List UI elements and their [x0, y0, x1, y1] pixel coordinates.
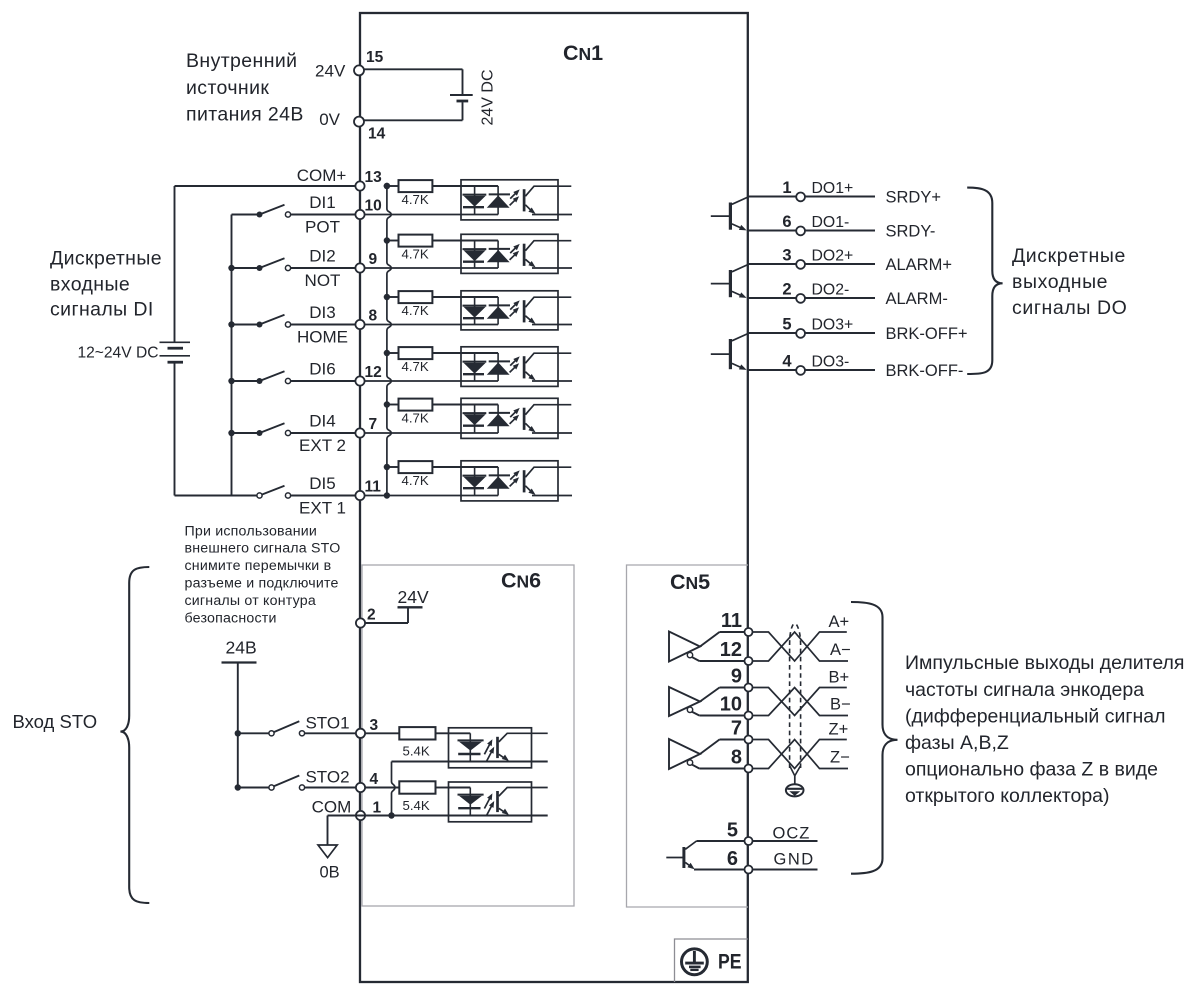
wire DO row DO1-: [748, 230, 875, 232]
svg-text:9: 9: [369, 251, 378, 268]
wire DO row DO3+: [748, 332, 875, 334]
junction COM+ bus row DI1: [384, 183, 390, 189]
svg-text:PE: PE: [718, 949, 742, 973]
svg-text:Z+: Z+: [829, 720, 849, 738]
label 4.7K row DI3: [402, 303, 429, 318]
optocoupler U8 (STO2): [449, 782, 548, 822]
label STO input: [13, 711, 98, 732]
svg-text:CN5: CN5: [670, 570, 710, 594]
pin 5 (DO3+): [782, 315, 805, 337]
label STO2: [305, 768, 349, 787]
optocoupler U7 (STO1): [449, 728, 548, 768]
label DO1+: [812, 180, 854, 197]
label A+: [829, 613, 850, 631]
svg-text:выходные: выходные: [1012, 271, 1108, 293]
junction bus DI5 line: [384, 492, 390, 498]
svg-text:BRK-OFF+: BRK-OFF+: [886, 325, 968, 343]
label 0B: [320, 864, 340, 882]
twisted pair B: [749, 688, 849, 716]
wire COM+ rail: [175, 185, 361, 187]
resistor 5.4K (STO2): [365, 781, 449, 793]
svg-text:Импульсные выходы делителя: Импульсные выходы делителя: [905, 652, 1184, 674]
svg-text:ALARM+: ALARM+: [886, 256, 952, 274]
label 24V DC (rotated): [480, 69, 497, 125]
svg-text:4.7K: 4.7K: [402, 359, 429, 374]
junction switch bus y268: [228, 265, 234, 271]
label Z+: [829, 720, 849, 738]
svg-text:COM+: COM+: [297, 166, 347, 185]
svg-text:A−: A−: [830, 641, 851, 659]
pin 7: [731, 718, 753, 744]
brace DO group: [967, 188, 1002, 374]
svg-text:DO1+: DO1+: [812, 180, 854, 197]
pin 2 (DO2-): [782, 280, 805, 302]
line driver B: [669, 687, 749, 716]
svg-text:сигналы от контура: сигналы от контура: [185, 593, 316, 609]
label CN6: [501, 569, 541, 593]
svg-text:4.7K: 4.7K: [402, 246, 429, 261]
svg-text:частоты сигнала энкодера: частоты сигнала энкодера: [905, 679, 1144, 701]
svg-text:NOT: NOT: [305, 271, 341, 290]
label DI4: [309, 412, 335, 431]
pin 11 (DI5): [355, 478, 381, 500]
label B+: [829, 668, 850, 686]
svg-text:4.7K: 4.7K: [402, 192, 429, 207]
svg-text:12: 12: [365, 364, 382, 381]
wire opto1 return rail: [392, 761, 548, 763]
label DO2+: [812, 248, 854, 265]
label B−: [830, 696, 851, 714]
junction switch bus y324.5: [228, 321, 234, 327]
svg-text:DI5: DI5: [309, 474, 335, 493]
svg-text:9: 9: [731, 666, 742, 688]
optocoupler U2 row DI2: [360, 234, 572, 273]
svg-text:BRK-OFF-: BRK-OFF-: [886, 362, 964, 380]
svg-text:DI3: DI3: [309, 303, 335, 322]
cable shield (dashed): [790, 623, 801, 776]
label DI3: [309, 303, 335, 322]
svg-text:6: 6: [727, 848, 738, 870]
svg-text:EXT 2: EXT 2: [299, 436, 346, 455]
label DO3+: [812, 317, 854, 334]
battery B2 12-24V DC: [160, 342, 191, 362]
label NOT: [305, 271, 341, 290]
pin 12: [720, 639, 753, 665]
svg-text:DO3+: DO3+: [812, 317, 854, 334]
svg-text:STO2: STO2: [305, 768, 349, 787]
svg-text:Дискретные: Дискретные: [50, 248, 162, 270]
pin 3: [356, 717, 379, 738]
svg-text:DO2+: DO2+: [812, 248, 854, 265]
svg-text:разъеме и подключите: разъеме и подключите: [185, 576, 339, 592]
svg-text:1: 1: [782, 179, 791, 197]
pin 1: [356, 799, 382, 820]
label DO1-: [812, 214, 850, 231]
brace STO input: [120, 567, 149, 903]
svg-text:A+: A+: [829, 613, 850, 631]
svg-text:4: 4: [782, 352, 792, 370]
wire GND row: [694, 869, 818, 871]
resistor 4.7K row DI5: [387, 461, 461, 473]
label 5.4K (STO1): [403, 744, 430, 759]
pin 3 (DO2+): [782, 246, 805, 268]
shield earth symbol: [786, 776, 804, 797]
svg-text:2: 2: [367, 607, 376, 624]
twisted pair Z: [749, 740, 849, 769]
pin 6: [727, 848, 753, 874]
svg-text:24V: 24V: [315, 61, 346, 80]
pin 10 (DI1): [355, 197, 381, 219]
svg-text:15: 15: [366, 49, 384, 66]
svg-text:DI4: DI4: [309, 412, 335, 431]
svg-text:DO3-: DO3-: [812, 354, 850, 371]
svg-text:DI1: DI1: [309, 193, 335, 212]
wire switch bus: [231, 215, 233, 496]
resistor 4.7K row DI4: [387, 399, 461, 411]
switch DI at y433: [232, 423, 361, 436]
svg-text:HOME: HOME: [297, 327, 348, 346]
wire DO row DO1+: [748, 196, 875, 198]
svg-text:опционально фаза Z в виде: опционально фаза Z в виде: [905, 759, 1158, 781]
transistor Q4 (OCZ): [666, 841, 696, 869]
pin 2: [356, 607, 376, 628]
label COM+: [297, 166, 347, 185]
wire external battery bottom: [175, 364, 258, 496]
battery B1 24V DC: [450, 95, 473, 101]
text DI inputs description: [50, 248, 162, 321]
label CN1: [563, 41, 603, 65]
label ALARM+: [886, 256, 952, 274]
svg-text:(дифференциальный сигнал: (дифференциальный сигнал: [905, 705, 1165, 727]
text STO usage note: [185, 523, 341, 626]
svg-text:Внутренний: Внутренний: [186, 50, 297, 72]
label CN5: [670, 570, 710, 594]
wire COM+ bus with hops: [387, 186, 391, 496]
svg-text:питания 24В: питания 24В: [186, 103, 304, 125]
label EXT 1: [299, 498, 346, 517]
junction COM+ bus row DI4: [384, 401, 390, 407]
svg-text:внешнего сигнала STO: внешнего сигнала STO: [185, 541, 341, 557]
wire opto1 return with hop: [392, 762, 396, 816]
label DI1: [309, 193, 335, 212]
pin 7 (DI4): [355, 416, 377, 438]
resistor 4.7K row DI3: [387, 291, 461, 303]
label DI5: [309, 474, 335, 493]
label HOME: [297, 327, 348, 346]
svg-text:DO1-: DO1-: [812, 214, 850, 231]
pin 13 (COM+): [355, 169, 382, 191]
svg-text:CN1: CN1: [563, 41, 603, 65]
svg-text:4.7K: 4.7K: [402, 303, 429, 318]
junction COM+ bus row DI3: [384, 294, 390, 300]
svg-text:11: 11: [365, 478, 382, 495]
svg-text:OCZ: OCZ: [773, 824, 811, 842]
svg-text:3: 3: [782, 246, 791, 264]
label BRK-OFF-: [886, 362, 964, 380]
svg-text:входные: входные: [50, 274, 130, 296]
label A−: [830, 641, 851, 659]
transistor Q2 (DO2): [711, 265, 748, 298]
label COM: [312, 797, 352, 816]
label 4.7K row DI4: [402, 410, 429, 425]
label OCZ: [773, 824, 811, 842]
svg-text:14: 14: [368, 126, 386, 143]
text internal 24V supply note: [186, 50, 304, 125]
svg-text:STO1: STO1: [305, 713, 349, 732]
PE earth symbol: [682, 949, 708, 975]
wire pin2 to 24V: [361, 607, 409, 623]
junction 24B STO1: [235, 730, 241, 736]
label 24B: [226, 638, 257, 658]
resistor 4.7K row DI6: [387, 347, 461, 359]
svg-text:24V: 24V: [398, 587, 429, 607]
svg-text:4: 4: [370, 771, 379, 788]
label 4.7K row DI6: [402, 359, 429, 374]
svg-text:8: 8: [369, 307, 378, 324]
label PE: [718, 949, 742, 973]
wire COM rail: [361, 815, 548, 817]
svg-text:DO2-: DO2-: [812, 282, 850, 299]
pin 14: [354, 117, 386, 143]
switch STO2: [238, 776, 361, 791]
svg-text:При использовании: При использовании: [185, 523, 318, 539]
optocoupler U4 row DI6: [360, 347, 572, 387]
wire external battery top: [174, 186, 176, 342]
label Z−: [830, 749, 850, 767]
switch DI at y214.5: [232, 205, 361, 218]
svg-text:10: 10: [720, 694, 742, 716]
pin 9 (DI2): [355, 251, 377, 273]
svg-text:GND: GND: [774, 850, 815, 868]
svg-text:12: 12: [720, 639, 742, 661]
pin 6 (DO1-): [782, 213, 805, 235]
label POT: [305, 217, 340, 236]
svg-text:5: 5: [727, 820, 738, 842]
label ALARM-: [886, 290, 948, 308]
svg-text:DI6: DI6: [309, 360, 335, 379]
svg-text:COM: COM: [312, 797, 352, 816]
svg-text:Вход STO: Вход STO: [13, 711, 98, 732]
optocoupler U3 row DI3: [360, 291, 572, 330]
label DO3-: [812, 354, 850, 371]
svg-text:4.7K: 4.7K: [402, 473, 429, 488]
svg-text:5.4K: 5.4K: [403, 798, 430, 813]
svg-text:POT: POT: [305, 217, 340, 236]
svg-text:SRDY+: SRDY+: [886, 188, 941, 206]
switch DI5: [257, 486, 360, 498]
brace encoder outputs: [851, 602, 898, 874]
switch DI at y268: [232, 258, 361, 271]
junction COM+ bus row DI6: [384, 350, 390, 356]
svg-text:снимите перемычки в: снимите перемычки в: [185, 558, 332, 574]
svg-text:5: 5: [782, 315, 791, 333]
wire pin15 to battery: [360, 69, 463, 94]
transistor Q1 (DO1): [711, 197, 748, 230]
svg-text:7: 7: [731, 718, 742, 740]
svg-text:4.7K: 4.7K: [402, 410, 429, 425]
svg-text:0В: 0В: [320, 864, 340, 882]
connector CN6 box: [362, 565, 574, 906]
line driver Z: [669, 739, 749, 769]
optocoupler U6 row DI5: [360, 461, 572, 501]
label DO2-: [812, 282, 850, 299]
label SRDY-: [886, 222, 936, 240]
label 4.7K row DI2: [402, 246, 429, 261]
svg-text:3: 3: [370, 717, 379, 734]
label 5.4K (STO2): [403, 798, 430, 813]
svg-text:24V DC: 24V DC: [480, 69, 497, 125]
label SRDY+: [886, 188, 941, 206]
svg-text:8: 8: [731, 747, 742, 769]
switch DI at y381: [232, 371, 361, 384]
svg-text:24В: 24В: [226, 638, 257, 658]
svg-text:ALARM-: ALARM-: [886, 290, 948, 308]
optocoupler U1 row DI1: [360, 180, 572, 220]
pin 1 (DO1+): [782, 179, 805, 201]
svg-text:SRDY-: SRDY-: [886, 222, 936, 240]
svg-text:Дискретные: Дискретные: [1012, 245, 1126, 267]
svg-text:CN6: CN6: [501, 569, 541, 593]
switch STO1: [238, 721, 361, 736]
svg-text:B+: B+: [829, 668, 850, 686]
label 24V (pin15): [315, 61, 346, 80]
svg-text:Z−: Z−: [830, 749, 850, 767]
supply bar 24B: [222, 661, 257, 663]
svg-text:сигналы DO: сигналы DO: [1012, 297, 1127, 319]
PE terminal box: [675, 939, 748, 982]
svg-text:7: 7: [369, 416, 378, 433]
connector CN5 box: [627, 565, 749, 907]
svg-text:источник: источник: [186, 77, 269, 99]
wire OCZ row: [697, 840, 818, 842]
label STO1: [305, 713, 349, 732]
wire battery to pin14: [360, 102, 463, 120]
optocoupler U5 row DI4: [360, 398, 572, 438]
text DO outputs description: [1012, 245, 1127, 319]
svg-text:сигналы DI: сигналы DI: [50, 299, 154, 321]
twisted pair A: [749, 632, 849, 661]
pin 12 (DI6): [355, 364, 381, 386]
pin 11: [721, 610, 753, 636]
text encoder outputs description: [905, 652, 1184, 807]
resistor 4.7K row DI1: [387, 180, 461, 192]
junction COM+ bus row DI2: [384, 237, 390, 243]
junction COM+ bus row DI5: [384, 464, 390, 470]
supply bar 24V (CN6): [398, 606, 423, 608]
wire DO row DO2-: [748, 297, 875, 299]
svg-text:B−: B−: [830, 696, 851, 714]
label EXT 2: [299, 436, 346, 455]
label DI6: [309, 360, 335, 379]
pin 9: [731, 666, 753, 692]
svg-text:открытого коллектора): открытого коллектора): [905, 785, 1110, 807]
wire COM to ground: [328, 816, 361, 846]
switch DI at y324.5: [232, 315, 361, 328]
label BRK-OFF+: [886, 325, 968, 343]
junction COM return: [388, 812, 394, 818]
svg-text:13: 13: [365, 169, 383, 186]
svg-text:2: 2: [782, 280, 791, 298]
label 4.7K row DI1: [402, 192, 429, 207]
junction switch bus y381: [228, 378, 234, 384]
pin 8 (DI3): [355, 307, 377, 329]
pin 15: [354, 49, 384, 75]
connector CN1 box: [360, 13, 748, 982]
svg-text:12~24V DC: 12~24V DC: [77, 345, 158, 362]
junction COM+ bus top: [384, 183, 390, 189]
resistor 4.7K row DI2: [387, 235, 461, 247]
label GND: [774, 850, 815, 868]
svg-text:11: 11: [721, 610, 742, 632]
wire DO row DO3-: [748, 369, 875, 371]
label 4.7K row DI5: [402, 473, 429, 488]
svg-text:10: 10: [365, 197, 382, 214]
pin 4: [356, 771, 379, 792]
svg-text:DI2: DI2: [309, 247, 335, 266]
resistor 5.4K (STO1): [365, 727, 449, 739]
svg-text:безопасности: безопасности: [185, 610, 277, 626]
ground 0B symbol: [318, 845, 337, 858]
svg-text:фазы A,B,Z: фазы A,B,Z: [905, 732, 1009, 754]
svg-text:1: 1: [373, 799, 382, 816]
wire 24B rail: [237, 663, 239, 788]
label 12~24V DC: [77, 345, 158, 362]
label 24V (CN6): [398, 587, 429, 607]
line driver A: [669, 632, 749, 662]
svg-text:0V: 0V: [319, 110, 340, 129]
pin 4 (DO3-): [782, 352, 805, 374]
pin 10: [720, 694, 753, 720]
transistor Q3 (DO3): [711, 334, 748, 370]
pin 8: [731, 747, 753, 773]
label DI2: [309, 247, 335, 266]
svg-text:EXT 1: EXT 1: [299, 498, 346, 517]
pin 5: [727, 820, 753, 846]
label 0V (pin14): [319, 110, 340, 129]
junction 24B STO2: [235, 784, 241, 790]
wire DO row DO2+: [748, 263, 875, 265]
junction switch bus y433: [228, 430, 234, 436]
svg-text:5.4K: 5.4K: [403, 744, 430, 759]
svg-text:6: 6: [782, 213, 791, 231]
